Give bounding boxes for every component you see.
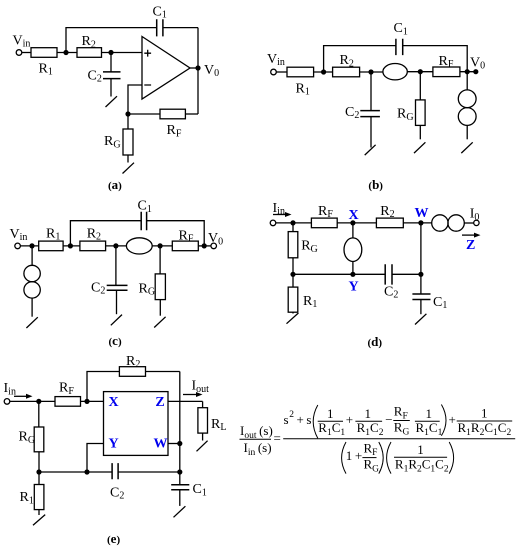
resistor R2 (b)	[333, 67, 360, 77]
ground below RG (a)	[123, 163, 135, 174]
ground below RG (c)	[154, 317, 165, 328]
node Y (d)	[350, 272, 355, 277]
node junction (d) bottom left	[290, 272, 295, 277]
node junction (a) plus-input node	[108, 50, 113, 55]
bottom wire (e)	[39, 471, 180, 473]
svg-text:X: X	[349, 208, 359, 223]
wire	[407, 71, 433, 73]
wire Z output (e)	[168, 400, 203, 402]
op-amp U1 (a)	[142, 37, 190, 100]
svg-text:+ s: + s	[297, 412, 312, 427]
resistor R2 (d)	[376, 218, 403, 228]
big left paren numerator	[313, 405, 318, 438]
svg-text:1: 1	[365, 406, 372, 421]
arrow current Iin (d)	[273, 214, 288, 216]
svg-text:1: 1	[481, 406, 488, 421]
input terminal (e)	[4, 399, 10, 405]
wire Y output (e)	[87, 444, 104, 473]
denominator left paren second	[387, 442, 391, 474]
input terminal (d)	[270, 220, 276, 226]
wire	[460, 71, 476, 73]
wire	[20, 245, 38, 247]
node junction (c) output node	[202, 243, 207, 248]
wire up to C1 (c)	[70, 221, 141, 246]
ground below C2 (a)	[106, 96, 118, 107]
ground below norator (c)	[26, 317, 37, 328]
resistor R1 (b)	[287, 67, 314, 77]
ground below RL (e)	[197, 441, 208, 452]
node junction (d) bottom right	[418, 272, 423, 277]
wire op-amp output (a)	[190, 67, 198, 69]
node junction (b) C2 node	[368, 69, 373, 74]
node W (d)	[418, 220, 423, 225]
input terminal (c)	[15, 243, 21, 249]
wire	[106, 245, 127, 247]
input terminal (a)	[16, 50, 22, 56]
denominator right paren first	[379, 442, 383, 474]
resistor RL (e)	[202, 401, 204, 407]
wire	[360, 71, 384, 73]
resistor RF (b)	[433, 67, 460, 77]
wire	[81, 400, 104, 402]
svg-text:Z: Z	[466, 238, 475, 253]
resistor RF (c)	[172, 241, 198, 251]
wire up to C1	[66, 28, 157, 53]
node junction (e) bottom left	[36, 469, 41, 474]
svg-text:(c): (c)	[109, 333, 122, 348]
nullator ellipse (b)	[383, 63, 407, 79]
svg-text:=: =	[274, 431, 281, 446]
main fraction bar	[283, 438, 515, 440]
wire C1 to output (b)	[403, 46, 468, 72]
bottom wire (d)	[293, 273, 385, 275]
resistor RF (d)	[311, 218, 337, 228]
wire	[10, 400, 55, 402]
node terminal V0 (b)	[473, 69, 478, 74]
svg-text:(d): (d)	[368, 334, 383, 349]
svg-text:+: +	[449, 412, 456, 427]
wire output vertical (a)	[197, 28, 199, 114]
svg-text:+: +	[346, 412, 353, 427]
ground below norator (b)	[461, 142, 472, 153]
svg-text:(b): (b)	[368, 177, 383, 192]
arrow current Z direction (d)	[462, 234, 477, 236]
node junction (e) X node	[84, 399, 89, 404]
capacitor C2 (d)	[385, 264, 392, 284]
resistor R1 (e)	[38, 472, 40, 485]
ground below C1 (d)	[415, 314, 426, 325]
capacitor C1 (c)	[141, 212, 146, 230]
norator circles (d)	[432, 215, 448, 231]
nullator ellipse (c)	[126, 238, 152, 254]
resistor R2 (a)	[77, 48, 102, 58]
input terminal (b)	[271, 69, 277, 75]
node junction (c) input node	[29, 243, 34, 248]
ground below RG (b)	[414, 142, 425, 153]
svg-text:(a): (a)	[108, 177, 122, 192]
node junction (b) after R1	[321, 69, 326, 74]
svg-text:−: −	[385, 412, 392, 427]
node junction (c) after R1	[68, 243, 73, 248]
node junction (e) bottom right	[177, 469, 182, 474]
wire	[276, 222, 312, 224]
output terminal I0 (d)	[474, 220, 479, 225]
node feedback junction (a)	[125, 111, 130, 116]
ground below C2 (b)	[365, 145, 376, 155]
wire	[464, 222, 473, 224]
wire W down (d)	[420, 223, 422, 274]
wire up to C1 (b)	[324, 46, 396, 72]
node junction (d) input node	[290, 220, 295, 225]
arrow current Iin (e)	[14, 395, 29, 397]
wire	[337, 222, 376, 224]
wire	[403, 222, 431, 224]
resistor RG (a)	[127, 114, 129, 129]
big right paren numerator	[441, 405, 446, 436]
output terminal V0 (c)	[211, 243, 217, 249]
svg-text:W: W	[154, 437, 168, 452]
node X (d)	[350, 220, 355, 225]
arrow current Iout (e)	[183, 394, 199, 396]
wire minus input (a)	[128, 85, 142, 114]
resistor RG (e)	[38, 401, 40, 427]
node junction (a) input node	[63, 50, 68, 55]
node output V0 (a)	[195, 65, 200, 70]
ground below C2 (c)	[111, 315, 122, 326]
capacitor C2 (b)	[370, 72, 372, 111]
norator circles (b)	[466, 72, 468, 90]
wire	[276, 71, 287, 73]
svg-text:1: 1	[327, 406, 334, 421]
node junction (b) RG node	[418, 69, 423, 74]
wire right vertical (e)	[179, 372, 181, 473]
resistor RG (b)	[419, 72, 421, 100]
resistor RG (c)	[159, 246, 161, 274]
denominator big left paren	[342, 442, 346, 474]
wire from C1 to output branch	[163, 27, 198, 29]
node junction (c) RG node	[158, 243, 163, 248]
norator circles (c)	[31, 246, 33, 265]
CFOA box (e)	[104, 392, 169, 456]
node junction (e) W node	[177, 441, 182, 446]
capacitor C1 (d)	[420, 274, 422, 294]
svg-text:Y: Y	[349, 279, 359, 294]
node junction (e) bottom mid	[84, 469, 89, 474]
resistor R1 (d)	[292, 274, 294, 287]
capacitor C1 (e)	[179, 472, 181, 485]
svg-text:1 +: 1 +	[346, 448, 362, 463]
capacitor C2 (a)	[110, 53, 112, 72]
capacitor C1 (b)	[396, 39, 403, 55]
capacitor C1 (a)	[157, 19, 163, 36]
svg-text:1: 1	[417, 442, 424, 457]
svg-text:Z: Z	[155, 395, 164, 410]
svg-text:Y: Y	[109, 437, 119, 452]
wire	[198, 245, 211, 247]
resistor R2 (c)	[80, 241, 106, 251]
resistor R2 (e) top branch	[87, 372, 119, 402]
wire	[63, 245, 80, 247]
denominator right paren second	[449, 442, 453, 474]
wire	[22, 52, 31, 54]
capacitor C2 (e)	[112, 463, 118, 479]
node junction (c) C2 node	[113, 243, 118, 248]
svg-text:X: X	[109, 395, 119, 410]
svg-text:s: s	[284, 412, 289, 427]
wire	[102, 52, 143, 54]
svg-text:1: 1	[426, 406, 433, 421]
svg-text:W: W	[415, 206, 429, 221]
resistor RF (a)	[128, 113, 160, 115]
capacitor C2 (c)	[115, 246, 117, 286]
wire	[314, 71, 333, 73]
node junction (b) output node	[465, 69, 470, 74]
resistor R1 (c)	[39, 241, 63, 251]
ground below R1 (e)	[33, 515, 45, 526]
resistor R1 (a)	[31, 48, 57, 58]
wire C1 to output (c)	[147, 221, 205, 246]
ground below R1 (d)	[287, 313, 299, 324]
resistor RF (e)	[55, 397, 81, 407]
nullator ellipse (d)	[352, 223, 354, 238]
svg-text:2: 2	[289, 410, 294, 420]
ground below C1 (e)	[174, 506, 186, 517]
svg-text:(e): (e)	[107, 531, 120, 546]
node junction (e) input node	[36, 399, 41, 404]
wire W output (e)	[168, 443, 180, 445]
resistor RG (d)	[292, 223, 294, 232]
wire	[57, 52, 77, 54]
wire	[152, 245, 172, 247]
